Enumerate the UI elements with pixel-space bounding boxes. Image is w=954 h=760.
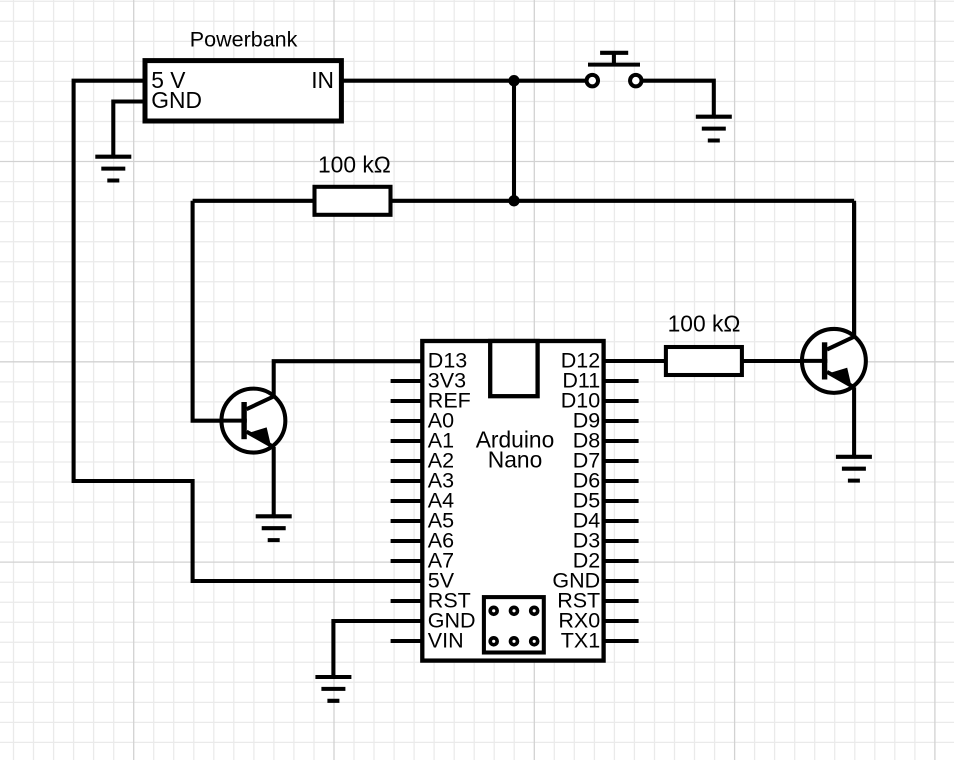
svg-text:GND: GND <box>151 87 202 113</box>
svg-text:Powerbank: Powerbank <box>190 28 298 52</box>
svg-text:TX1: TX1 <box>561 629 600 653</box>
svg-text:100 kΩ: 100 kΩ <box>668 310 741 336</box>
svg-text:100 kΩ: 100 kΩ <box>318 152 391 178</box>
svg-text:VIN: VIN <box>428 629 464 653</box>
svg-text:IN: IN <box>311 67 334 93</box>
svg-text:Nano: Nano <box>488 446 543 472</box>
